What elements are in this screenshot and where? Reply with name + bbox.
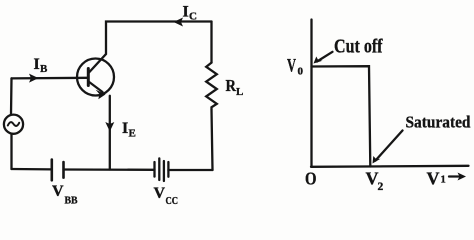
label Vcc bbox=[154, 185, 179, 207]
arrow V1 axis direction bbox=[449, 175, 460, 177]
curve step response bbox=[312, 66, 371, 166]
wire emitter bbox=[109, 96, 111, 170]
svg-text:V: V bbox=[154, 185, 166, 202]
svg-text:E: E bbox=[129, 128, 136, 140]
transistor Q1 bbox=[77, 59, 114, 96]
arrow saturated pointer bbox=[376, 131, 403, 161]
label Ib bbox=[34, 56, 49, 75]
svg-text:CC: CC bbox=[166, 196, 179, 207]
battery Vbb bbox=[52, 160, 64, 181]
wire left-rail lower bbox=[10, 134, 12, 169]
label Ie bbox=[122, 120, 136, 140]
svg-text:V: V bbox=[287, 56, 296, 77]
arrowhead Ie (down-pointing on emitter wire) bbox=[105, 122, 114, 132]
svg-text:Cut off: Cut off bbox=[334, 36, 383, 58]
label Ic bbox=[183, 4, 198, 23]
arrow cutoff pointer bbox=[317, 52, 333, 62]
wire bottom-right segment bbox=[168, 169, 212, 171]
svg-text:O: O bbox=[305, 169, 317, 189]
wire bottom-left segment bbox=[12, 168, 52, 171]
wire left-rail upper bbox=[10, 78, 13, 114]
svg-text:I: I bbox=[183, 4, 189, 21]
svg-text:2: 2 bbox=[378, 181, 384, 193]
arrowhead Ib (right-pointing on base lead) bbox=[29, 74, 39, 83]
ac source bbox=[4, 115, 23, 134]
label V2 bbox=[366, 169, 384, 194]
svg-text:Saturated: Saturated bbox=[406, 113, 471, 132]
svg-text:B: B bbox=[40, 63, 48, 75]
label V1 bbox=[427, 169, 446, 189]
svg-text:BB: BB bbox=[65, 195, 79, 207]
battery Vcc bbox=[155, 158, 169, 181]
wire right-rail lower bbox=[212, 109, 213, 170]
label Vbb bbox=[52, 183, 78, 207]
label RL bbox=[226, 76, 244, 98]
wire bottom-middle segment bbox=[64, 168, 155, 171]
label Saturated bbox=[406, 113, 471, 132]
arrowhead emitter bbox=[96, 90, 106, 100]
wire base lead bbox=[12, 77, 89, 80]
svg-text:I: I bbox=[34, 56, 40, 73]
label O origin bbox=[305, 169, 317, 189]
svg-text:I: I bbox=[122, 120, 128, 137]
x-axis bbox=[311, 166, 469, 167]
wire collector-to-top-rail bbox=[89, 22, 212, 74]
svg-text:C: C bbox=[189, 11, 197, 23]
arrowhead Ic (left-pointing on top rail) bbox=[174, 18, 184, 27]
svg-text:V: V bbox=[52, 183, 64, 200]
y-axis bbox=[310, 20, 312, 167]
svg-text:L: L bbox=[236, 86, 243, 98]
label V0 bbox=[287, 56, 304, 78]
svg-text:R: R bbox=[226, 76, 237, 95]
resistor RL bbox=[206, 63, 217, 110]
svg-text:0: 0 bbox=[298, 66, 304, 78]
label Cut off bbox=[334, 36, 383, 58]
wire right-rail upper bbox=[210, 22, 212, 63]
svg-text:V: V bbox=[427, 169, 440, 189]
svg-text:1: 1 bbox=[441, 175, 446, 186]
